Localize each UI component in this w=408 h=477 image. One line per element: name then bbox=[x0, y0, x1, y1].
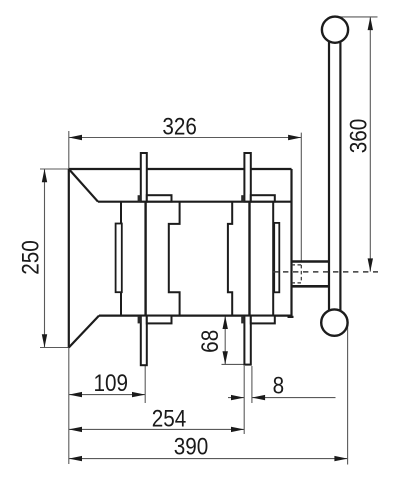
body outline bbox=[69, 169, 294, 348]
109 right extension bbox=[144, 366, 146, 403]
109 right arrow bbox=[132, 392, 145, 397]
svg-text:109: 109 bbox=[93, 370, 128, 397]
through line left bbox=[144, 202, 146, 316]
top dark square left bbox=[138, 195, 141, 201]
right plate bbox=[274, 223, 279, 292]
svg-text:326: 326 bbox=[162, 113, 197, 140]
svg-text:390: 390 bbox=[174, 433, 209, 460]
bottom ledge right bbox=[251, 316, 275, 324]
250 bottom extension bbox=[40, 347, 69, 349]
svg-text:250: 250 bbox=[17, 240, 44, 275]
svg-text:254: 254 bbox=[152, 405, 187, 432]
top diagonal bbox=[69, 169, 98, 202]
shaft box bbox=[292, 262, 330, 287]
left edge bbox=[68, 169, 70, 348]
central block left edge bbox=[169, 202, 180, 316]
top tab right bbox=[244, 153, 250, 202]
hidden dashed socket in shaft bbox=[292, 265, 302, 283]
68 bottom extension bbox=[222, 363, 245, 365]
svg-text:8: 8 bbox=[273, 372, 285, 399]
109 dim line bbox=[69, 394, 145, 396]
326 dim line bbox=[69, 137, 301, 139]
109 left arrow bbox=[69, 392, 82, 397]
8 dim line left part bbox=[228, 397, 244, 399]
250 bottom arrow bbox=[42, 334, 47, 347]
bottom tab right bbox=[244, 316, 250, 365]
8 dim line right part bbox=[252, 397, 336, 399]
250 top arrow bbox=[42, 169, 47, 182]
8 right arrow (outside, pointing left) bbox=[252, 395, 265, 400]
8 left arrow (outside, pointing right) bbox=[231, 395, 244, 400]
326 left arrow bbox=[69, 135, 82, 140]
bottom tab left bbox=[141, 316, 147, 366]
right edge bbox=[290, 169, 292, 317]
390 right extension bbox=[347, 326, 349, 465]
top tab left bbox=[141, 153, 147, 202]
bottom diagonal bbox=[69, 316, 99, 348]
bottom dark square right bbox=[241, 317, 244, 324]
top dark square right bbox=[241, 195, 244, 201]
250 dim line bbox=[44, 169, 46, 348]
svg-text:360: 360 bbox=[345, 119, 372, 154]
bottom ball bbox=[321, 309, 347, 335]
254 dim line bbox=[69, 428, 244, 430]
bottom shoulder bbox=[99, 315, 292, 317]
8 left extension bbox=[243, 366, 245, 434]
left main extension vertical (top part) bbox=[68, 131, 70, 169]
250 top extension bbox=[40, 168, 69, 170]
360 top arrow bbox=[368, 17, 373, 30]
svg-text:68: 68 bbox=[197, 330, 224, 353]
326 right arrow bbox=[288, 135, 301, 140]
360 bottom arrow bbox=[368, 258, 373, 271]
390 right arrow bbox=[334, 456, 347, 461]
inner box right edge bbox=[272, 202, 274, 316]
254 right arrow bbox=[231, 427, 244, 432]
top ball bbox=[322, 17, 348, 43]
thin extension / dimension lines bbox=[40, 17, 378, 465]
inner box left edge bbox=[120, 202, 122, 316]
68 bottom arrow bbox=[223, 351, 228, 364]
inner structure bbox=[121, 202, 273, 316]
390 left arrow bbox=[69, 456, 82, 461]
top ledge right bbox=[251, 195, 275, 201]
360 top extension bbox=[340, 16, 378, 18]
8 right extension bbox=[251, 366, 253, 403]
handle bar bbox=[329, 41, 340, 310]
68 top arrow bbox=[223, 316, 228, 329]
326 right extension bbox=[300, 133, 302, 262]
dashed centerline bbox=[273, 271, 378, 273]
390 dim line bbox=[69, 458, 348, 460]
top ledge left bbox=[147, 195, 172, 201]
360 dim line bbox=[369, 17, 371, 272]
left plate bbox=[116, 224, 122, 293]
arrowheads bbox=[42, 17, 373, 461]
top shoulder bbox=[98, 201, 292, 203]
top line bbox=[69, 168, 292, 170]
68 dim line bbox=[224, 316, 226, 365]
bottom dark square left bbox=[138, 317, 141, 324]
through line right bbox=[248, 202, 250, 316]
central block right edge bbox=[228, 202, 232, 316]
254 left arrow bbox=[69, 427, 82, 432]
right edge foot step bbox=[288, 316, 294, 318]
bottom ledge left bbox=[147, 316, 172, 324]
left main extension vertical (bottom part) bbox=[68, 348, 70, 465]
